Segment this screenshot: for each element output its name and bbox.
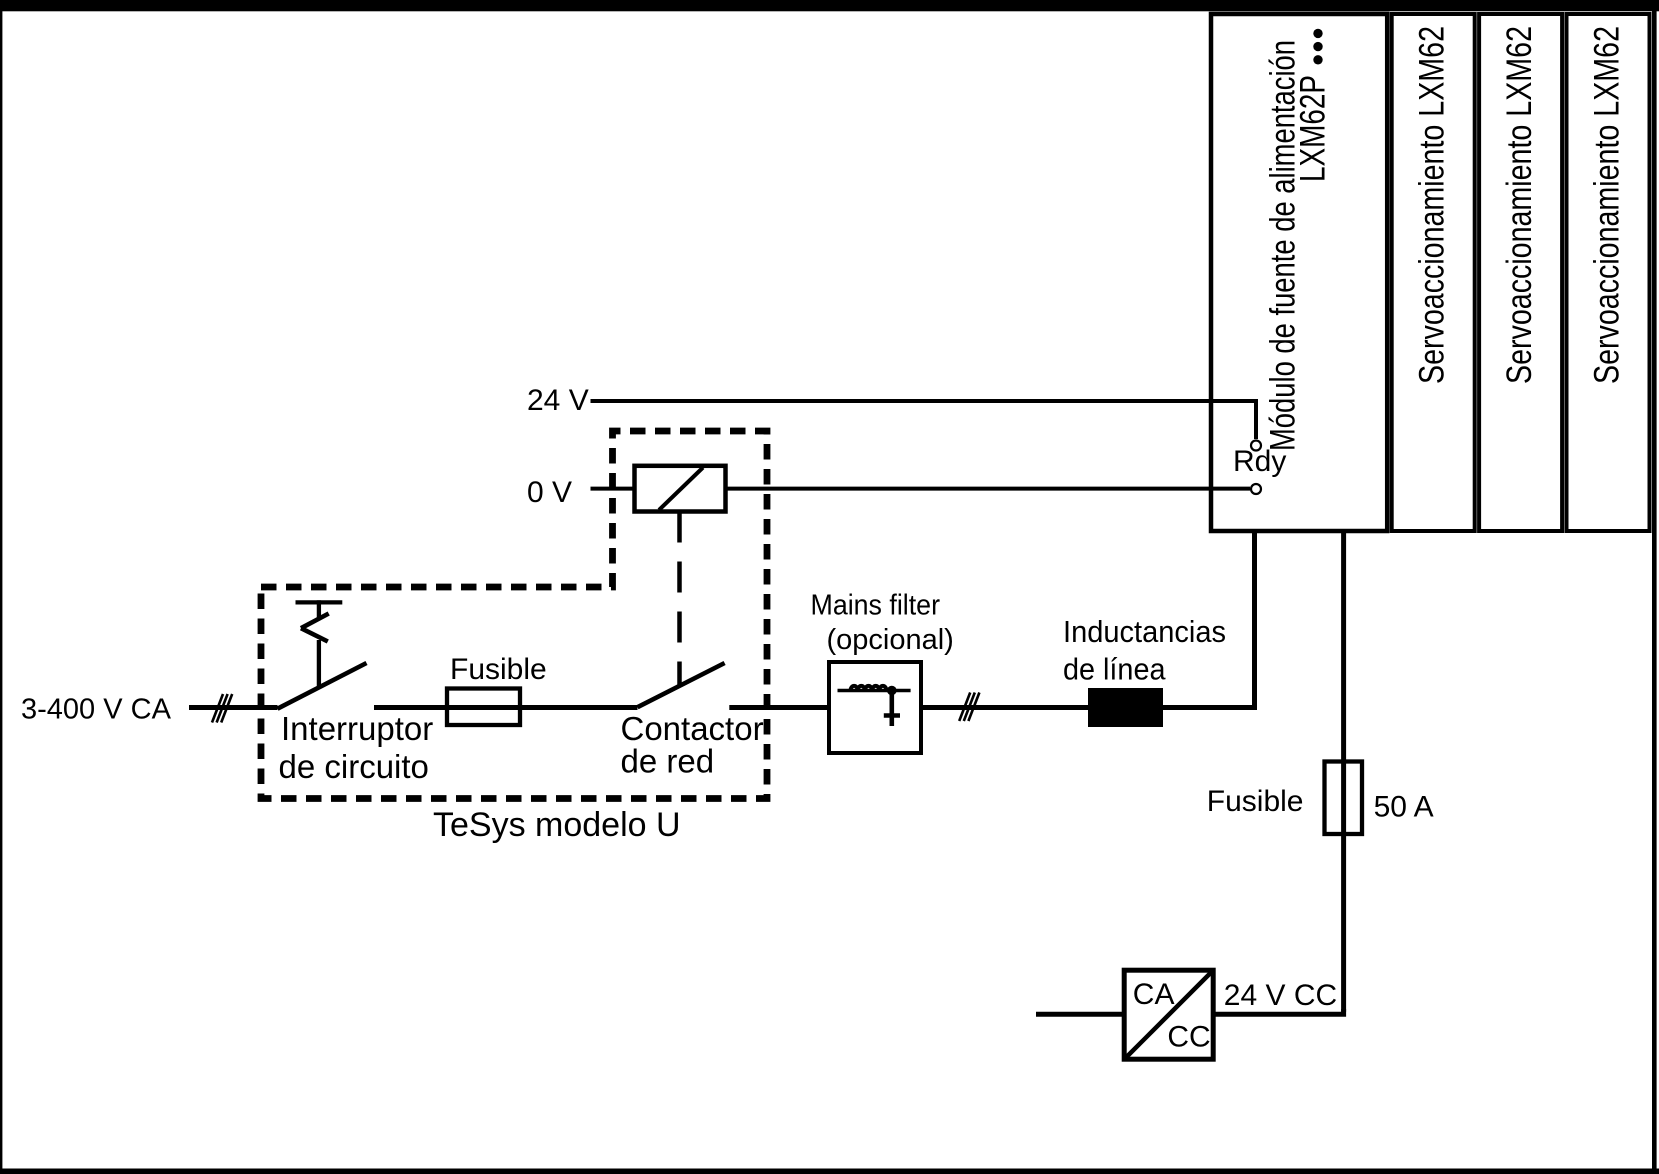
svg-text:Servoaccionamiento LXM62: Servoaccionamiento LXM62 xyxy=(1413,26,1452,384)
circuit breaker Q1 xyxy=(278,600,367,708)
svg-text:Contactor: Contactor xyxy=(621,710,764,747)
relay coil K1 xyxy=(635,466,726,512)
wire to converter xyxy=(1036,1012,1124,1017)
svg-text:Rdy: Rdy xyxy=(1233,445,1286,478)
svg-text:24 V CC: 24 V CC xyxy=(1224,979,1337,1012)
label Interruptor de circuito xyxy=(279,710,434,785)
converter CA/CC xyxy=(1124,970,1213,1059)
three-phase marks input xyxy=(212,694,232,723)
svg-text:Servoaccionamiento LXM62: Servoaccionamiento LXM62 xyxy=(1500,26,1539,384)
svg-text:de red: de red xyxy=(621,743,715,780)
mains filter box xyxy=(829,662,921,753)
DC bus wire xyxy=(1341,533,1346,1012)
svg-text:3-400 V CA: 3-400 V CA xyxy=(21,694,172,726)
svg-text:Inductancias: Inductancias xyxy=(1063,614,1226,649)
terminal Rdy upper xyxy=(1251,441,1261,451)
svg-text:Mains filter: Mains filter xyxy=(811,590,941,622)
svg-text:24 V: 24 V xyxy=(527,384,589,417)
svg-text:CC: CC xyxy=(1167,1020,1210,1053)
svg-text:de línea: de línea xyxy=(1063,651,1166,686)
mechanical link dashed xyxy=(677,512,682,687)
power supply module box LXM62P xyxy=(1211,14,1387,531)
wire breaker to contactor xyxy=(374,705,638,710)
label Mains filter (opcional) xyxy=(811,590,954,657)
terminal Rdy lower xyxy=(1251,484,1261,494)
servo drive box 1 xyxy=(1392,14,1475,531)
wire converter to bus xyxy=(1213,1009,1343,1014)
svg-text:Servoaccionamiento LXM62: Servoaccionamiento LXM62 xyxy=(1587,26,1626,384)
svg-text:Fusible: Fusible xyxy=(450,653,547,686)
wire filter to inductors xyxy=(921,705,1088,710)
svg-text:50 A: 50 A xyxy=(1374,791,1434,824)
label Contactor de red xyxy=(621,710,764,780)
wire input xyxy=(189,705,278,710)
wire 24 V xyxy=(591,401,1257,439)
svg-text:TeSys modelo U: TeSys modelo U xyxy=(433,806,681,844)
svg-text:0 V: 0 V xyxy=(527,476,572,509)
dashed enclosure TeSys xyxy=(261,431,767,799)
label Inductancias de linea xyxy=(1063,614,1226,687)
svg-text:Fusible: Fusible xyxy=(1207,785,1304,818)
fuse F2 50 A xyxy=(1325,762,1363,835)
wire inductors to module xyxy=(1163,533,1255,708)
svg-text:Interruptor: Interruptor xyxy=(281,710,433,747)
svg-text:de circuito: de circuito xyxy=(279,748,429,785)
fuse F1 xyxy=(447,689,520,726)
line inductors block xyxy=(1088,688,1163,727)
wire 0 V left xyxy=(591,487,635,491)
three-phase marks 2 xyxy=(959,693,979,722)
ellipsis dots xyxy=(1313,29,1322,65)
servo drive box 3 xyxy=(1567,14,1650,531)
contactor blade K1 xyxy=(638,663,725,707)
svg-text:CA: CA xyxy=(1133,978,1175,1011)
svg-text:LXM62P: LXM62P xyxy=(1294,75,1333,182)
wire contactor to filter xyxy=(729,705,829,710)
wire 0 V right xyxy=(726,487,1251,491)
svg-text:(opcional): (opcional) xyxy=(827,624,954,656)
servo drive box 2 xyxy=(1479,14,1562,531)
